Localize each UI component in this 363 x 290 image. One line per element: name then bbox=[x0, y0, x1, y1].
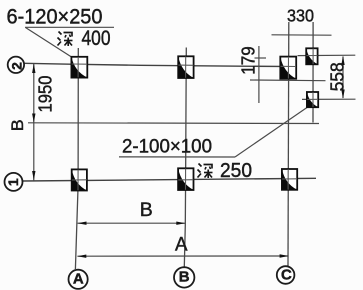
svg-text:B: B bbox=[8, 119, 27, 131]
grid bubble 2 bbox=[8, 57, 25, 73]
wire dimension line 558 vertical bbox=[342, 57, 344, 99]
anchor square C1 bbox=[282, 169, 297, 190]
svg-text:179: 179 bbox=[239, 46, 259, 75]
svg-text:B: B bbox=[140, 199, 153, 221]
wire grid line 2 horizontal bbox=[25, 63, 297, 66]
wire leader underline 2-100x100 bbox=[119, 156, 235, 158]
arrow right B dim bbox=[176, 222, 185, 225]
anchor square A1 bbox=[72, 169, 87, 190]
anchor square B1 bbox=[178, 168, 193, 190]
arrow up 558 top bbox=[341, 56, 344, 65]
wire top small square centerline bbox=[298, 54, 356, 56]
anchor square B2 bbox=[178, 56, 193, 78]
svg-text:2: 2 bbox=[8, 62, 24, 70]
svg-text:A: A bbox=[175, 235, 188, 256]
wire dimension line B bottom bbox=[78, 222, 186, 224]
arrow left A dim bbox=[77, 255, 86, 258]
wire grid line 1 horizontal bbox=[23, 178, 316, 181]
wire tick y58 bbox=[255, 57, 267, 59]
wire dimension line B/1950 vertical left bbox=[33, 64, 35, 181]
arrow up at grid 2 on left dim line bbox=[32, 64, 35, 74]
label shen(depth) glyph top bbox=[58, 32, 73, 47]
wire bolt centerline vertical x313 bbox=[312, 22, 314, 123]
svg-text:A: A bbox=[73, 270, 84, 287]
wire bottom small square centerline bbox=[302, 98, 356, 100]
anchor square small top bbox=[306, 48, 317, 64]
svg-text:2-100×100: 2-100×100 bbox=[122, 137, 212, 158]
wire dimension line A bottom bbox=[77, 255, 288, 257]
wire leader diagonal to square A2 bbox=[26, 28, 72, 58]
svg-text:400: 400 bbox=[82, 27, 111, 50]
wire lower extension line of 1950 bbox=[28, 122, 319, 125]
arrow down at grid 1 on left dim line bbox=[32, 171, 35, 180]
svg-text:558: 558 bbox=[328, 62, 348, 91]
svg-text:6-120×250: 6-120×250 bbox=[7, 6, 103, 29]
wire column A vertical bbox=[75, 48, 78, 269]
wire dimension line 179 vertical bbox=[258, 46, 260, 103]
wire column C vertical bbox=[287, 22, 290, 266]
arrow right A dim bbox=[280, 254, 289, 257]
wire dimension line 330 bbox=[272, 34, 332, 36]
wire leader diagonal to small bottom square bbox=[235, 108, 307, 158]
grid bubble A bbox=[69, 270, 88, 289]
grid bubble B bbox=[174, 267, 194, 287]
svg-text:330: 330 bbox=[287, 6, 314, 26]
svg-text:C: C bbox=[281, 267, 292, 284]
wire segments visible through square interiors bbox=[72, 49, 318, 191]
grid bubble C bbox=[277, 266, 295, 284]
wire offset line y80 bbox=[250, 79, 326, 82]
svg-text:1950: 1950 bbox=[36, 76, 56, 113]
anchor square A2 bbox=[71, 57, 87, 78]
svg-text:250: 250 bbox=[220, 160, 252, 182]
wire column B vertical bbox=[184, 48, 186, 267]
anchor square C2 bbox=[280, 57, 296, 79]
anchor square small bottom bbox=[307, 92, 318, 107]
arrow down 558 bottom bbox=[341, 90, 344, 99]
wire leader underline 6-120x250 bbox=[25, 26, 114, 28]
arrow down at lower extension line bbox=[32, 114, 35, 123]
label shen(depth) glyph bottom bbox=[198, 164, 213, 179]
arrow left B dim bbox=[77, 222, 86, 225]
grid bubble 1 bbox=[5, 173, 23, 191]
svg-text:1: 1 bbox=[5, 178, 21, 186]
svg-text:B: B bbox=[179, 269, 190, 286]
